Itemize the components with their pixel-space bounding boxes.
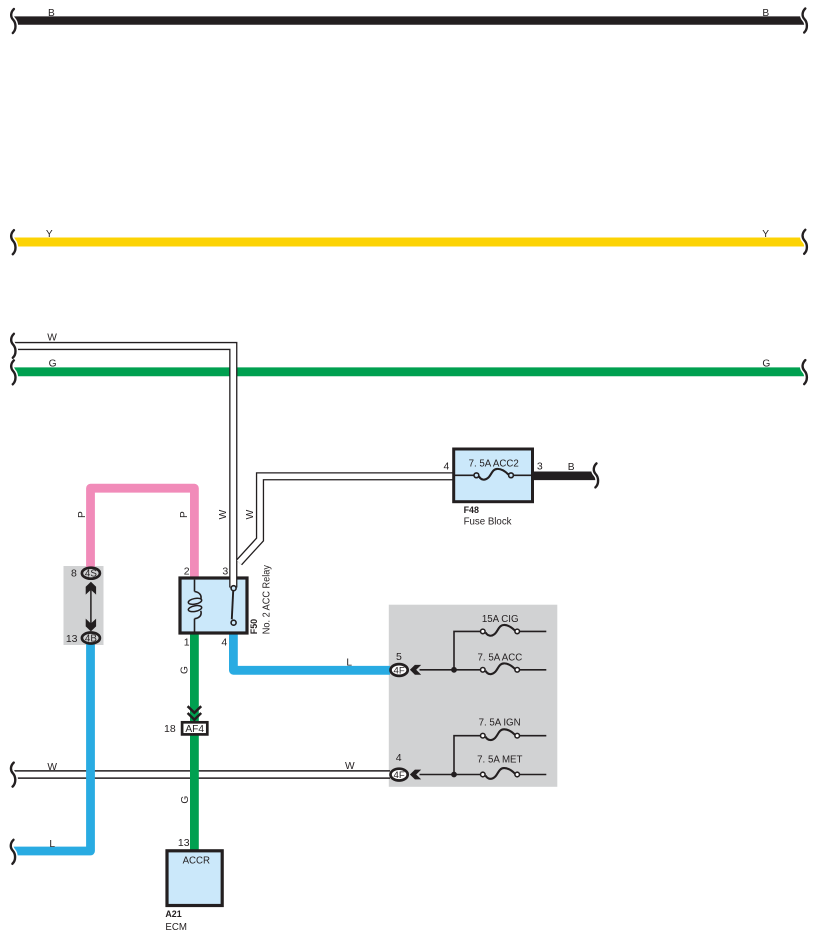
- svg-text:13: 13: [178, 837, 190, 849]
- break symbol right of B bus: [803, 9, 807, 33]
- wire G (green) relay pin 1 to ECM: [190, 630, 199, 852]
- svg-text:2: 2: [184, 565, 190, 577]
- svg-text:No. 2 ACC Relay: No. 2 ACC Relay: [262, 564, 273, 634]
- svg-text:A21: A21: [165, 909, 181, 919]
- wire L (blue) relay pin 4 to 4F pin 5: [233, 630, 390, 670]
- ECM box A21: [167, 851, 222, 906]
- svg-text:Fuse Block: Fuse Block: [464, 516, 512, 527]
- break symbol left of W bus: [11, 334, 15, 358]
- wire B bus (black): [13, 16, 806, 24]
- svg-text:15A CIG: 15A CIG: [482, 614, 519, 625]
- break symbol right of Y bus: [803, 230, 807, 254]
- chevron splice arrow above AF4: [188, 706, 202, 713]
- relay coil: [194, 580, 196, 592]
- svg-text:L: L: [346, 657, 352, 668]
- break symbol right of F48 B wire: [594, 463, 598, 487]
- connector 4F top: [391, 664, 408, 676]
- svg-text:G: G: [762, 359, 770, 370]
- wire from arrow to junction (bottom): [420, 774, 455, 776]
- fuse block gray box (right): [389, 605, 558, 787]
- arrow at 4F top: [410, 665, 421, 675]
- svg-text:18: 18: [164, 723, 176, 735]
- svg-text:W: W: [47, 332, 57, 343]
- svg-text:7. 5A MET: 7. 5A MET: [477, 754, 522, 765]
- wire P (pink) 4S to relay pin 2: [91, 488, 195, 580]
- wire from arrow to junction (top): [420, 669, 455, 671]
- svg-text:G: G: [180, 666, 191, 674]
- fuse 7.5A ACC2 inside F48: [454, 474, 474, 476]
- svg-text:4F: 4F: [393, 770, 404, 781]
- wire junction to MET fuse: [454, 774, 480, 776]
- arrow at 4F bottom: [410, 770, 421, 780]
- svg-text:1: 1: [184, 636, 190, 648]
- svg-text:F48: F48: [464, 505, 479, 515]
- relay F50 box: [180, 578, 247, 633]
- svg-text:W: W: [47, 762, 57, 773]
- svg-text:4B: 4B: [85, 633, 97, 644]
- break symbol left of W bottom wire: [11, 763, 15, 787]
- svg-text:7. 5A IGN: 7. 5A IGN: [479, 718, 521, 729]
- connector AF4: [182, 722, 207, 734]
- wire W bottom (to 4F pin 4): [13, 770, 390, 779]
- svg-text:4: 4: [396, 752, 402, 764]
- wire G bus (green): [13, 367, 806, 376]
- svg-text:3: 3: [537, 460, 543, 472]
- wire W bus to relay pin 3: [13, 346, 233, 588]
- junction block J/B gray box (4S/4B): [64, 566, 104, 645]
- break symbol left of B bus: [11, 9, 15, 33]
- svg-text:4: 4: [221, 636, 227, 648]
- connector 4S: [82, 568, 100, 579]
- svg-text:3: 3: [222, 565, 228, 577]
- svg-text:B: B: [762, 8, 769, 19]
- relay switch: [232, 591, 233, 620]
- wire junction up to IGN fuse: [454, 736, 480, 775]
- svg-text:P: P: [77, 511, 88, 518]
- break symbol left of Y bus: [11, 230, 15, 254]
- fuse 7.5A ACC: [486, 663, 516, 674]
- svg-text:4: 4: [443, 460, 449, 472]
- arrow between 4S and 4B: [90, 584, 92, 628]
- junction node (bottom): [451, 772, 457, 778]
- break symbol left of G bus: [11, 360, 15, 384]
- wire junction up to CIG fuse: [454, 631, 480, 669]
- svg-text:ECM: ECM: [165, 922, 187, 933]
- svg-text:7. 5A ACC: 7. 5A ACC: [478, 652, 523, 663]
- svg-text:Y: Y: [46, 229, 53, 240]
- wire Y bus (yellow): [13, 238, 806, 247]
- connector 4F bottom: [391, 769, 408, 781]
- junction node (top): [451, 667, 457, 673]
- svg-text:F50: F50: [249, 619, 259, 634]
- svg-text:13: 13: [66, 633, 78, 645]
- svg-text:8: 8: [71, 568, 77, 580]
- svg-text:L: L: [49, 839, 55, 850]
- fuse block F48 box: [454, 449, 533, 502]
- svg-text:4F: 4F: [393, 665, 404, 676]
- wire junction to ACC fuse: [454, 669, 480, 671]
- svg-text:ACCR: ACCR: [183, 856, 210, 867]
- svg-text:B: B: [568, 462, 575, 473]
- fuse 7.5A MET: [486, 768, 516, 779]
- svg-text:Y: Y: [762, 229, 769, 240]
- fuse 15A CIG: [486, 625, 516, 636]
- connector 4B: [82, 633, 100, 644]
- svg-text:B: B: [48, 8, 55, 19]
- svg-text:P: P: [179, 511, 190, 518]
- svg-text:G: G: [180, 796, 191, 804]
- wire L (blue) 4B down to break: [13, 644, 91, 851]
- wire W from F48 pin 4 to relay pin 3 area: [239, 476, 454, 562]
- svg-text:AF4: AF4: [185, 724, 204, 735]
- svg-text:G: G: [49, 359, 57, 370]
- fuse 7.5A IGN: [486, 729, 516, 740]
- svg-text:5: 5: [396, 651, 402, 663]
- wire B from F48 pin 3: [533, 471, 597, 480]
- svg-text:4S: 4S: [85, 569, 97, 580]
- svg-text:7. 5A ACC2: 7. 5A ACC2: [469, 458, 519, 469]
- svg-text:W: W: [218, 509, 229, 519]
- break symbol right of G bus: [803, 360, 807, 384]
- svg-text:W: W: [345, 761, 355, 772]
- svg-text:W: W: [245, 509, 256, 519]
- break symbol left of L wire: [11, 840, 15, 864]
